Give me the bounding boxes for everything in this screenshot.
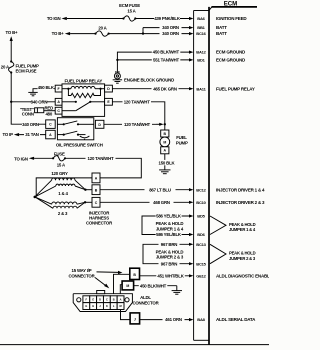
injector connector pin B [92,185,100,195]
label 1 & 4 [58,191,68,196]
junction battery split [142,32,144,34]
jumper loop 2 & 3 bracket [143,244,150,263]
oil switch contact A row [57,131,89,140]
junction injector common [34,196,37,199]
wire battery feed [70,33,95,35]
svg-text:468 GRN: 468 GRN [153,200,170,205]
pin BC16 [196,31,206,36]
fuse FUEL PUMP ECM FUSE 20A [1,60,39,73]
pin BC15 [196,261,206,266]
svg-text:FUEL PUMP RELAY: FUEL PUMP RELAY [216,86,255,91]
node TO IP [3,132,20,137]
svg-text:FUEL PUMP RELAY: FUEL PUMP RELAY [65,78,103,83]
svg-text:JUMPER 2 & 3: JUMPER 2 & 3 [156,255,184,260]
junction ground stud node [116,59,118,61]
svg-text:120 TAN/WHT: 120 TAN/WHT [124,99,151,104]
pin BA12 [196,50,206,55]
relay pin D [105,85,113,92]
pin BD5 [197,214,205,219]
svg-text:2 & 3: 2 & 3 [58,211,68,216]
svg-text:ECM FUSE: ECM FUSE [16,68,37,73]
wire label 340 ORN (oil switch) [22,121,39,127]
svg-text:JUMPER 2 & 3: JUMPER 2 & 3 [229,256,256,261]
relay resistor [68,89,100,98]
svg-text:465 DK GRN: 465 DK GRN [153,86,177,91]
label INJECTOR DRIVER 1 & 4 [216,187,265,192]
label OIL PRESSURE SWITCH [56,143,103,148]
label ALDL SERIAL DATA [216,317,256,322]
ALDL pin J terminal [130,313,140,324]
fuel pump pin B [161,130,169,137]
ECM connector column top cap [194,10,209,12]
svg-text:450 BLK: 450 BLK [38,85,55,90]
svg-text:CONNECTOR: CONNECTOR [86,221,113,226]
label PEAK & HOLD JUMPER 1 & 4 (left) [156,221,184,231]
wire 150 BLK [158,154,176,170]
wire B row to box [85,189,92,191]
ALDL pin B terminal [130,268,140,279]
svg-text:120 GRY: 120 GRY [51,171,68,176]
svg-text:CONNECTOR: CONNECTOR [132,300,159,305]
svg-text:867 LT BLU: 867 LT BLU [149,187,171,192]
junction fuel pump feed [10,101,12,103]
relay coil [62,86,105,89]
wire connector cell M to J terminal [121,310,131,320]
svg-text:ENGINE BLOCK GROUND: ENGINE BLOCK GROUND [124,78,174,83]
svg-text:BATT: BATT [216,25,227,30]
node TO B+ (left) [6,30,18,41]
pin BD1 [197,58,205,63]
wire 450 BLK/WHT (ECM ground) [117,49,193,59]
wire to injector fuse [34,157,53,159]
wire feed down to oil switch [11,102,46,124]
label FUEL PUMP RELAY [216,86,255,91]
svg-text:K: K [106,304,108,308]
svg-text:E: E [92,297,94,301]
wire fuse to junction [10,73,12,102]
pin BC10 [196,200,206,205]
svg-text:C: C [106,297,108,301]
svg-text:ECM GROUND: ECM GROUND [216,58,246,63]
svg-text:439 PNK/BLK: 439 PNK/BLK [154,16,181,21]
svg-text:586 YEL/BLK: 586 YEL/BLK [156,232,182,237]
wire left battery drop [10,41,12,62]
ECM jumper 1&4 diagonals [210,216,226,235]
svg-text:461 ORN: 461 ORN [165,317,182,322]
wire 340 ORN lower [109,31,194,37]
svg-text:340 ORN: 340 ORN [162,31,179,36]
leader arrow to connector [95,278,109,289]
node injector driver 2&3 [84,201,86,203]
oil pressure switch box [57,118,93,140]
wire 450 BLK/WHT (ALDL ground) [134,283,177,291]
label IGNITION FEED [216,16,247,21]
wire to engine block stud [116,60,118,73]
wire 967 BRN (upper) [150,242,193,248]
pin BC12 [196,187,206,192]
svg-text:551 TAN/WHT: 551 TAN/WHT [153,58,180,63]
svg-text:PEAK & HOLD: PEAK & HOLD [156,249,184,254]
node TO B+ (top right) [52,31,70,36]
svg-text:RED: RED [45,106,54,111]
label BATT (lower) [216,31,227,36]
label ECM GROUND (lower) [216,58,246,63]
svg-text:PEAK & HOLD: PEAK & HOLD [229,222,256,227]
svg-text:PUMP: PUMP [176,141,188,146]
label ALDL CONNECTOR [132,295,159,305]
wire 586 YEL/BLK (upper) [149,213,193,219]
svg-text:TO B+: TO B+ [52,31,64,36]
ground (ALDL) [172,291,182,295]
relay pin C [55,107,62,114]
svg-text:451 WHT/BLK: 451 WHT/BLK [157,273,184,278]
wire 450 BLK to ground [33,84,55,92]
injector connector pin C [92,197,100,207]
wire 120 TAN/WHT from relay E [112,99,164,130]
pin BC13 [196,242,206,247]
label INJECTOR DRIVER 2 & 3 [216,200,265,205]
svg-text:340 ORN: 340 ORN [162,25,179,30]
relay switch [62,101,105,111]
svg-text:BD5: BD5 [197,214,205,219]
label 2 & 3 [58,211,68,216]
svg-text:1 & 4: 1 & 4 [58,191,68,196]
wire 551 TAN/WHT (ECM ground) [117,57,193,63]
oil switch pin C [46,120,56,128]
label FUEL PUMP [176,135,188,145]
svg-text:A: A [120,297,122,301]
svg-text:150 BLK: 150 BLK [159,160,176,165]
svg-text:M: M [163,141,166,145]
svg-text:BC13: BC13 [196,242,206,247]
svg-text:967 BRN: 967 BRN [161,242,178,247]
oil switch pin D [95,120,104,128]
svg-text:FUEL: FUEL [176,135,187,140]
svg-text:ECM FUSE: ECM FUSE [119,3,140,8]
jumper loop 1 & 4 bracket [142,216,149,235]
label BATT (upper) [216,25,227,30]
wire connector cell to B terminal [114,274,130,293]
svg-text:BC15: BC15 [196,261,206,266]
node injector driver 1&4 [84,189,86,191]
wire 31 TAN [19,132,46,138]
label PEAK & HOLD JUMPER 2 & 3 (left) [156,249,184,259]
wire 439 PNK/BLK [135,16,193,22]
engine block ground stud [113,71,122,83]
ground (fuel pump) [159,170,170,174]
injector connector pin A [92,173,100,183]
node TO IGN (top) [47,16,67,21]
svg-text:PEAK & HOLD: PEAK & HOLD [156,221,184,226]
wire ignition feed [67,18,123,20]
label PEAK & HOLD JUMPER 2 & 3 (ECM) [229,251,256,261]
label PEAK & HOLD JUMPER 1 & 4 (ECM) [229,222,256,232]
pin BB1 [197,25,205,30]
fuel pump motor M [160,137,170,147]
fuse 20A (battery) [94,25,109,36]
svg-text:BC10: BC10 [196,200,206,205]
injector coil 3 (of 2 & 3) [35,197,85,208]
ECM jumper 2&3 diagonals [210,244,226,263]
wire 340 ORN upper [143,25,193,31]
ECM box left border [208,7,210,345]
junction fuel pump node [164,123,166,125]
relay pin A [55,98,62,105]
svg-text:CONNECTOR: CONNECTOR [68,273,95,278]
svg-text:B: B [113,297,115,301]
svg-text:480: 480 [45,111,52,116]
label 15 WAY I/P CONNECTOR [68,268,95,278]
wire connector cell to M terminal [120,285,122,294]
relay pin E [105,98,113,105]
svg-text:BA6: BA6 [197,16,205,21]
wire 465 DK GRN to BA11 [112,86,193,92]
pin BD6 [197,232,205,237]
wire 120 TAN/WHT from oil switch D [104,122,164,128]
svg-text:BC12: BC12 [196,187,206,192]
label ECM GROUND (upper) [216,50,246,55]
node TO IGN (injector feed) [14,157,34,162]
svg-text:TO B+: TO B+ [6,30,18,35]
svg-text:BA11: BA11 [196,86,206,91]
svg-text:120 TAN/WHT: 120 TAN/WHT [88,156,115,161]
svg-text:ALDL SERIAL DATA: ALDL SERIAL DATA [216,317,256,322]
wire 340 ORN to relay A [11,99,55,105]
svg-text:ECM GROUND: ECM GROUND [216,50,246,55]
svg-text:20 A: 20 A [98,25,107,30]
svg-text:BA8: BA8 [197,317,205,322]
test connector [20,107,44,117]
svg-text:JUMPER 1 & 4: JUMPER 1 & 4 [156,226,184,231]
ECM corner jog [209,7,212,11]
fuel pump relay label [65,78,103,83]
wire 468 GRN [100,200,193,206]
pin BA8 [197,317,205,322]
svg-text:TO IGN: TO IGN [47,16,61,21]
label ENGINE BLOCK GROUND [124,78,174,83]
wire 967 BRN (lower) [150,261,193,267]
svg-text:450 BLK/WHT: 450 BLK/WHT [153,50,180,55]
svg-text:BATT: BATT [216,31,227,36]
svg-text:JUMPER 1 & 4: JUMPER 1 & 4 [229,227,256,232]
svg-text:OIL PRESSURE SWITCH: OIL PRESSURE SWITCH [56,143,103,148]
wire 120 GRY [36,171,92,197]
oil switch pin A [46,130,56,139]
svg-text:BA12: BA12 [196,50,206,55]
wire 867 LT BLU [100,187,193,193]
wire 480 RED to relay C [44,106,55,117]
svg-text:M: M [126,284,129,288]
bottom frame line [0,344,269,346]
svg-text:TO IP: TO IP [3,132,14,137]
pin GE12 [196,273,206,278]
svg-text:IGNITION FEED: IGNITION FEED [216,16,247,21]
wire 451 WHT/BLK [140,273,194,279]
injector coil 1 (of 1 & 4) [35,178,86,197]
svg-text:G: G [85,304,87,308]
svg-text:450 BLK/WHT: 450 BLK/WHT [140,283,167,288]
svg-text:15 A: 15 A [57,162,66,167]
svg-text:120 TAN/WHT: 120 TAN/WHT [124,122,151,127]
relay pin F [55,85,62,92]
oil switch contact C row [57,121,93,126]
svg-text:967 BRN: 967 BRN [161,261,178,266]
svg-text:BD6: BD6 [197,232,205,237]
svg-text:INJECTOR DRIVER 2 & 3: INJECTOR DRIVER 2 & 3 [216,200,265,205]
fuel pump pin A [161,147,169,154]
fuse FUSE 15A (injector) [52,151,66,167]
wire 586 YEL/BLK (lower) [149,232,193,238]
wire 120 TAN/WHT (injector feed) [65,156,141,178]
wire battery branch vertical [142,28,144,34]
svg-text:M: M [120,304,122,308]
ECM connector column bottom cap [194,339,209,341]
wire 461 ORN [140,317,194,323]
svg-text:GE12: GE12 [196,273,206,278]
svg-text:PEAK & HOLD: PEAK & HOLD [229,251,256,256]
relay box [62,84,105,117]
svg-text:INJECTOR DRIVER 1 & 4: INJECTOR DRIVER 1 & 4 [216,187,265,192]
ALDL pin M terminal [122,281,134,290]
ECM box top border [212,6,258,8]
svg-text:J: J [134,318,136,322]
svg-text:BD1: BD1 [197,58,205,63]
15-way connector cells bottom row G H J K L M [83,303,124,310]
svg-text:H: H [92,304,94,308]
svg-text:BC16: BC16 [196,31,206,36]
svg-text:586 YEL/BLK: 586 YEL/BLK [156,214,182,219]
svg-text:31 TAN: 31 TAN [25,132,39,137]
15-way connector cells top row F E D C B A [83,296,124,303]
fuse ECM FUSE 15A [119,3,140,21]
ECM connector column left line [193,11,195,341]
15-way connector body [73,291,132,312]
ground (relay coil) [28,92,37,95]
svg-text:340 ORN: 340 ORN [22,122,39,127]
injector coil 4 (of 1 & 4) [35,184,86,197]
pin BA6 [197,16,205,21]
svg-text:TO IGN: TO IGN [14,157,28,162]
svg-text:CONN: CONN [22,112,34,117]
label ALDL DIAGNOSTIC ENABLE [216,273,273,278]
ECM title [224,0,238,7]
wire C row to box [85,201,92,203]
svg-text:BB1: BB1 [197,25,205,30]
svg-text:340 ORN: 340 ORN [31,99,48,104]
svg-text:15 A: 15 A [127,9,136,14]
injector coil 2 (of 2 & 3) [35,197,85,204]
leader arrow to wire [97,271,123,274]
svg-text:ALDL DIAGNOSTIC ENABLE: ALDL DIAGNOSTIC ENABLE [216,273,269,278]
pin BA11 [196,86,206,91]
label INJECTOR HARNESS CONNECTOR [86,211,113,226]
svg-text:D: D [99,297,101,301]
